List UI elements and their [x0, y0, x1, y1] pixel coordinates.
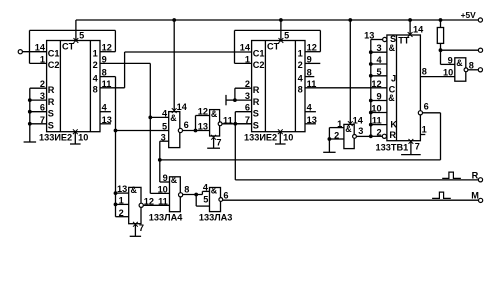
gate DD2.3 input leads 13,1,2	[116, 192, 129, 194]
svg-text:133ЛА3: 133ЛА3	[199, 213, 233, 223]
svg-text:14: 14	[35, 43, 46, 53]
svg-text:14: 14	[240, 43, 251, 53]
+5V terminal	[478, 18, 482, 22]
DD1 pins 2,3,6,7 leads to ground bus	[30, 87, 47, 89]
svg-text:S: S	[48, 109, 54, 119]
svg-text:4: 4	[162, 108, 168, 118]
svg-text:133ЛА4: 133ЛА4	[149, 213, 183, 223]
svg-text:&: &	[211, 186, 218, 196]
counter DD1 NC pin 13 stub	[100, 123, 111, 125]
wire QC down to gates	[115, 77, 117, 217]
wire input terminal to DD1 pin 14	[22, 51, 46, 53]
gate DD2.3 body	[129, 187, 141, 223]
svg-text:8: 8	[422, 67, 427, 77]
junction dot rail to DD3 pin 5	[279, 18, 283, 22]
counter DD3 NC pin 4 stub	[305, 111, 316, 113]
gate DD2.2 pin 9 lead	[160, 181, 170, 183]
svg-text:4: 4	[307, 103, 313, 113]
gate DD4.1 output inversion circle	[353, 135, 357, 139]
svg-text:CT: CT	[62, 42, 75, 52]
branch up to DD4.4 pin 12	[195, 116, 197, 131]
gate DD4.2 body	[210, 188, 221, 212]
svg-text:S: S	[253, 121, 259, 131]
svg-text:10: 10	[158, 185, 168, 195]
svg-text:2: 2	[376, 127, 381, 137]
DD3 pin 1 lead	[235, 62, 252, 64]
gate DD2.1 body	[169, 112, 180, 148]
gate DD4.3 output inversion circle	[464, 68, 468, 72]
counter DD3 NC pin 13 stub	[305, 123, 316, 125]
svg-text:5: 5	[284, 31, 289, 41]
svg-text:3: 3	[358, 126, 363, 136]
wire DD1 pin12 to pin1 (QA to CLKB) via top	[100, 51, 115, 53]
junction dot QC to gate DD2.1 pin 5	[114, 129, 118, 133]
DD5 pin 8 (Q) lead to gate DD4.3	[420, 76, 454, 78]
svg-text:2: 2	[119, 208, 124, 218]
DD1 pin 1 lead	[30, 62, 47, 64]
svg-text:14: 14	[413, 24, 424, 34]
svg-text:5: 5	[162, 122, 167, 132]
gate DD4.1 body	[344, 124, 354, 148]
junction dot DD4.2 input branch	[194, 193, 198, 197]
svg-text:R: R	[253, 85, 260, 95]
counter DD3 body outline	[252, 41, 305, 132]
svg-text:M: M	[471, 191, 479, 201]
branch to DD4.2 pin 4	[201, 191, 203, 194]
DD5 R input inversion circle	[382, 134, 386, 138]
svg-text:13: 13	[198, 121, 208, 131]
counter DD3 pin 10 (GND) lead and ground	[278, 129, 283, 134]
svg-text:1: 1	[298, 49, 303, 59]
svg-text:13: 13	[364, 30, 374, 40]
junction dots on DD1 ground bus	[28, 98, 32, 102]
gate DD4.1 pin 14 (Vcc) lead from rail	[349, 20, 351, 124]
svg-text:1: 1	[422, 125, 427, 135]
chassis ground symbol for DD3 R inputs	[226, 99, 235, 101]
svg-text:133ИЕ2: 133ИЕ2	[39, 133, 72, 143]
svg-text:R: R	[48, 85, 55, 95]
wire gate DD4.1 output to DD5 input bus	[356, 135, 370, 137]
svg-text:6: 6	[223, 191, 228, 201]
svg-text:R: R	[253, 97, 260, 107]
svg-text:4: 4	[203, 183, 209, 193]
svg-text:+5V: +5V	[461, 10, 477, 20]
junction dot Q-bar line	[158, 158, 162, 162]
svg-text:10: 10	[443, 68, 453, 78]
gate DD2.1 output inversion circle	[178, 128, 182, 132]
branch to DD4.2 pin 5	[195, 195, 197, 207]
counter DD1 NC pin 4 stub	[100, 111, 111, 113]
junction dot rail to DD5 pin14	[408, 18, 412, 22]
DD5 junction dots on input bus	[369, 50, 373, 54]
svg-text:S: S	[253, 109, 259, 119]
svg-text:9: 9	[376, 92, 381, 102]
gate DD4.4 body	[210, 110, 220, 136]
output terminal 8	[478, 68, 482, 72]
DD3 pins 6,7 leads and S bus	[235, 111, 251, 113]
svg-text:J: J	[391, 73, 396, 83]
R output terminal	[478, 178, 482, 182]
gate DD2.3 pin 7 (GND) and ground	[133, 222, 138, 227]
pull-up terminal	[478, 48, 482, 52]
M pulse symbol	[432, 192, 451, 198]
junction dot at gate DD4.4 input branch	[194, 129, 198, 133]
svg-text:4: 4	[102, 103, 108, 113]
gate DD2.2 body	[170, 177, 181, 212]
svg-text:13: 13	[117, 184, 127, 194]
svg-text:5: 5	[376, 67, 381, 77]
counter DD3 pin 5 (Vcc) lead to +5V rail	[280, 20, 282, 41]
ground symbol of DD1 R/S bus	[24, 141, 36, 143]
svg-text:133ИЕ2: 133ИЕ2	[244, 133, 277, 143]
svg-text:3: 3	[376, 43, 381, 53]
DD5 left pin leads	[371, 39, 383, 41]
svg-text:6: 6	[424, 102, 429, 112]
junction dot rail to DD4.1 pin14	[348, 18, 352, 22]
wire resistor node to gate DD4.3 pin 9	[440, 50, 442, 64]
svg-text:8: 8	[93, 85, 98, 95]
svg-text:133ТВ1: 133ТВ1	[376, 142, 409, 152]
svg-text:4: 4	[298, 73, 304, 83]
svg-text:8: 8	[469, 60, 474, 70]
wire QC branch to gate DD2.1 pin 5	[116, 130, 169, 132]
svg-text:7: 7	[139, 223, 144, 233]
wire QB down to gate DD2.2 pin 10	[149, 63, 151, 193]
svg-text:S: S	[48, 121, 54, 131]
counter DD1 pin 5 (Vcc) lead to +5V rail	[75, 20, 77, 41]
junction dot resistor node	[439, 48, 443, 52]
wire DD3 pin12 to pin1 via top	[305, 51, 320, 53]
DD5 input bus from DD4.1 output	[370, 40, 372, 137]
junction dots QC to gate DD2.3 pins 13,1	[114, 191, 118, 195]
svg-text:1: 1	[119, 196, 124, 206]
input terminal	[18, 50, 22, 54]
wire gate DD4.3 output to terminal	[468, 69, 478, 71]
svg-text:&: &	[389, 43, 396, 53]
svg-text:4: 4	[93, 73, 99, 83]
svg-text:C1: C1	[48, 49, 60, 59]
svg-text:&: &	[171, 175, 178, 185]
gate DD4.4 output inversion circle	[218, 122, 222, 126]
wire DD3 S bus down to R line	[235, 179, 478, 181]
DD3 pins 2,3 leads and bus	[235, 87, 252, 89]
junction dot on DD3 S bus	[233, 122, 237, 126]
svg-text:14: 14	[353, 115, 364, 125]
svg-text:5: 5	[203, 194, 208, 204]
wire QB branch to gate DD2.1 pin 4	[150, 116, 168, 118]
svg-text:C1: C1	[253, 49, 265, 59]
gate DD2.1 pin 3 wire to Q-bar line	[160, 140, 169, 142]
counter DD1 body outline	[47, 41, 100, 132]
svg-text:8: 8	[298, 85, 303, 95]
DD5 pin 1 NC stub	[420, 134, 425, 136]
svg-text:1: 1	[93, 49, 98, 59]
gate DD4.1 grounded inputs	[329, 127, 344, 129]
svg-text:9: 9	[448, 55, 453, 65]
svg-text:C2: C2	[253, 60, 265, 70]
DD5 pin 6 (Q-bar) inversion circle	[418, 111, 422, 115]
svg-text:4: 4	[376, 55, 382, 65]
svg-text:K: K	[390, 120, 397, 130]
svg-text:12: 12	[371, 79, 381, 89]
gate DD4.3 body	[455, 58, 466, 81]
svg-text:R: R	[472, 170, 479, 180]
svg-text:7: 7	[216, 137, 221, 147]
svg-text:R: R	[48, 97, 55, 107]
DD5 S input inversion circle	[383, 37, 387, 41]
junction dot rail to resistor	[439, 18, 443, 22]
DD5 pin 7 (GND) and ground	[409, 139, 414, 144]
svg-text:11: 11	[372, 116, 382, 126]
svg-text:5: 5	[79, 31, 84, 41]
wire gate DD4.2 output to M terminal	[223, 199, 479, 201]
gate DD2.2 output inversion circle	[179, 193, 183, 197]
wire gate DD2.1 output to gate DD4.4 inputs	[183, 130, 210, 132]
junction dot DD3 pin3	[233, 98, 237, 102]
svg-text:&: &	[170, 113, 177, 123]
DD3 pin 9 stub	[305, 62, 320, 64]
svg-text:&: &	[388, 93, 395, 103]
svg-text:&: &	[131, 185, 138, 195]
gate DD2.1 pin 14 (Vcc) lead from rail	[173, 20, 175, 112]
+5V power rail wire	[76, 19, 478, 21]
svg-text:C2: C2	[48, 60, 60, 70]
svg-text:12: 12	[198, 107, 208, 117]
svg-text:13: 13	[102, 115, 112, 125]
gate DD4.2 output inversion circle	[219, 198, 223, 202]
svg-text:&: &	[456, 58, 463, 68]
counter DD1 pin 10 (GND) lead and ground	[73, 129, 78, 134]
wire gate DD4.4 output to DD3 S inputs	[222, 123, 252, 125]
gate DD2.3 output inversion circle	[139, 203, 143, 207]
DD1 ground bus vertical	[29, 88, 31, 142]
DD3 pin 11 (QD) wire to DD5 C input	[305, 87, 387, 89]
svg-text:2: 2	[93, 60, 98, 70]
svg-text:8: 8	[184, 185, 189, 195]
svg-text:10: 10	[371, 104, 381, 114]
svg-text:2: 2	[298, 60, 303, 70]
svg-text:13: 13	[307, 115, 317, 125]
junction dot rail to DD2.1 pin14	[172, 18, 176, 22]
svg-text:10: 10	[283, 133, 293, 143]
resistor R1	[437, 28, 443, 44]
DD1 pin 9 (QB) lead	[100, 62, 150, 64]
R pulse symbol	[442, 172, 461, 178]
DD5 pin 14 (Vcc) lead from rail	[409, 20, 411, 35]
wire gate DD2.3 output to DD2.2 pin 11	[143, 204, 169, 206]
svg-text:CT: CT	[267, 42, 280, 52]
junction dot QB to gate DD2.1 pin 4	[148, 116, 152, 120]
svg-text:&: &	[211, 109, 218, 119]
svg-text:14: 14	[177, 102, 188, 112]
flip-flop DD5 body	[387, 35, 421, 141]
svg-text:R: R	[389, 130, 396, 140]
svg-text:7: 7	[415, 142, 420, 152]
wire Q-bar to feedback line	[423, 112, 441, 114]
wire gate DD2.2 output to gate DD4.2 inputs	[183, 194, 203, 196]
DD1 pin 11 (QD) lead	[100, 87, 125, 89]
wire resistor node to terminal	[441, 49, 479, 51]
wire QD up and right to DD3 pin 14	[124, 52, 126, 88]
svg-text:6: 6	[184, 120, 189, 130]
gate DD4.4 pin 7 (GND) and ground	[211, 135, 216, 140]
DD1 pin 8 (QC) lead	[100, 76, 116, 78]
M output terminal	[479, 198, 483, 202]
svg-text:10: 10	[78, 133, 88, 143]
DD3 pin 8 stub	[305, 76, 314, 78]
